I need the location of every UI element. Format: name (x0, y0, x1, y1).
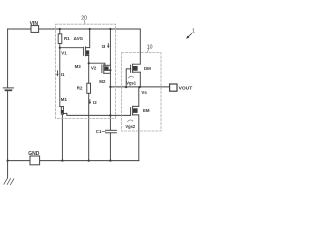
svg-text:C1: C1 (96, 129, 102, 134)
svg-text:DM: DM (144, 66, 151, 71)
svg-text:Vgs1: Vgs1 (126, 80, 137, 85)
wire bottom ground rail (8, 160, 139, 162)
terminal VOUT (170, 84, 177, 91)
svg-text:EM: EM (143, 108, 150, 113)
wire V1 node to M3 gate (60, 47, 84, 49)
current arrow I2 (89, 100, 91, 105)
wire top rail VIN (8, 28, 141, 30)
wire M1 source to ground rail (61, 114, 63, 161)
wire DM drain to top rail (133, 29, 141, 64)
terminal GND (30, 156, 40, 165)
arrow Vgs2 (128, 120, 133, 122)
transistor M1 (60, 106, 64, 108)
wire EM drain to Vs (133, 87, 139, 106)
battery B1 (3, 87, 13, 89)
svg-text:R1: R1 (64, 36, 70, 41)
arrow Vgs1 (128, 76, 133, 78)
svg-text:GND: GND (28, 151, 40, 157)
dashed box 10 power module (122, 53, 161, 131)
wire Vs node (110, 86, 169, 88)
wire DM source to Vs (139, 72, 141, 87)
ground (7, 161, 9, 178)
transistor M2 (V2) (101, 65, 103, 73)
transistor EM (130, 108, 132, 116)
wire M3 drain to top rail (89, 29, 91, 48)
transistor DM (130, 65, 132, 72)
svg-text:R2: R2 (77, 86, 83, 91)
svg-text:V1: V1 (61, 51, 67, 56)
svg-text:V2: V2 (91, 66, 97, 71)
svg-text:I3: I3 (102, 44, 106, 49)
wire I3 rail (109, 29, 111, 130)
svg-text:10: 10 (147, 44, 153, 50)
resistor R2 (87, 83, 91, 93)
wire EM source to ground rail (133, 115, 139, 161)
current arrow I3 (107, 44, 109, 49)
figure arrow 1 (186, 33, 191, 38)
svg-text:M2: M2 (99, 79, 106, 84)
svg-text:I2: I2 (93, 100, 97, 105)
svg-text:Vs: Vs (141, 90, 147, 95)
svg-text:M1: M1 (61, 97, 68, 102)
wire V1 node to M1 (59, 48, 61, 107)
junction dots (7, 28, 141, 162)
current arrow I1 (56, 71, 58, 77)
resistor R1 (59, 29, 61, 34)
svg-text:20: 20 (81, 16, 87, 22)
leader tick 10 (147, 49, 148, 52)
wire M3 source down (88, 56, 90, 84)
svg-text:Vgs2: Vgs2 (125, 124, 136, 129)
svg-text:VOUT: VOUT (179, 86, 193, 92)
svg-text:M3: M3 (75, 64, 82, 69)
capacitor C1 (106, 129, 117, 131)
transistor M3 (83, 47, 85, 55)
wire left rail (7, 29, 9, 161)
wire gate bus M1 to EM gate (67, 113, 131, 115)
wire DM gate tie to Vs (126, 69, 130, 87)
svg-text:1: 1 (192, 28, 195, 34)
wire node A to M2 (89, 63, 105, 65)
svg-text:I1: I1 (61, 72, 65, 77)
leader tick 20 (83, 20, 86, 24)
svg-text:ΔVG: ΔVG (74, 36, 84, 41)
wire R2 to ground rail (88, 93, 90, 160)
dashed box 20 drive circuit (56, 24, 116, 118)
terminal VIN (31, 26, 39, 33)
svg-text:VIN: VIN (30, 21, 39, 27)
